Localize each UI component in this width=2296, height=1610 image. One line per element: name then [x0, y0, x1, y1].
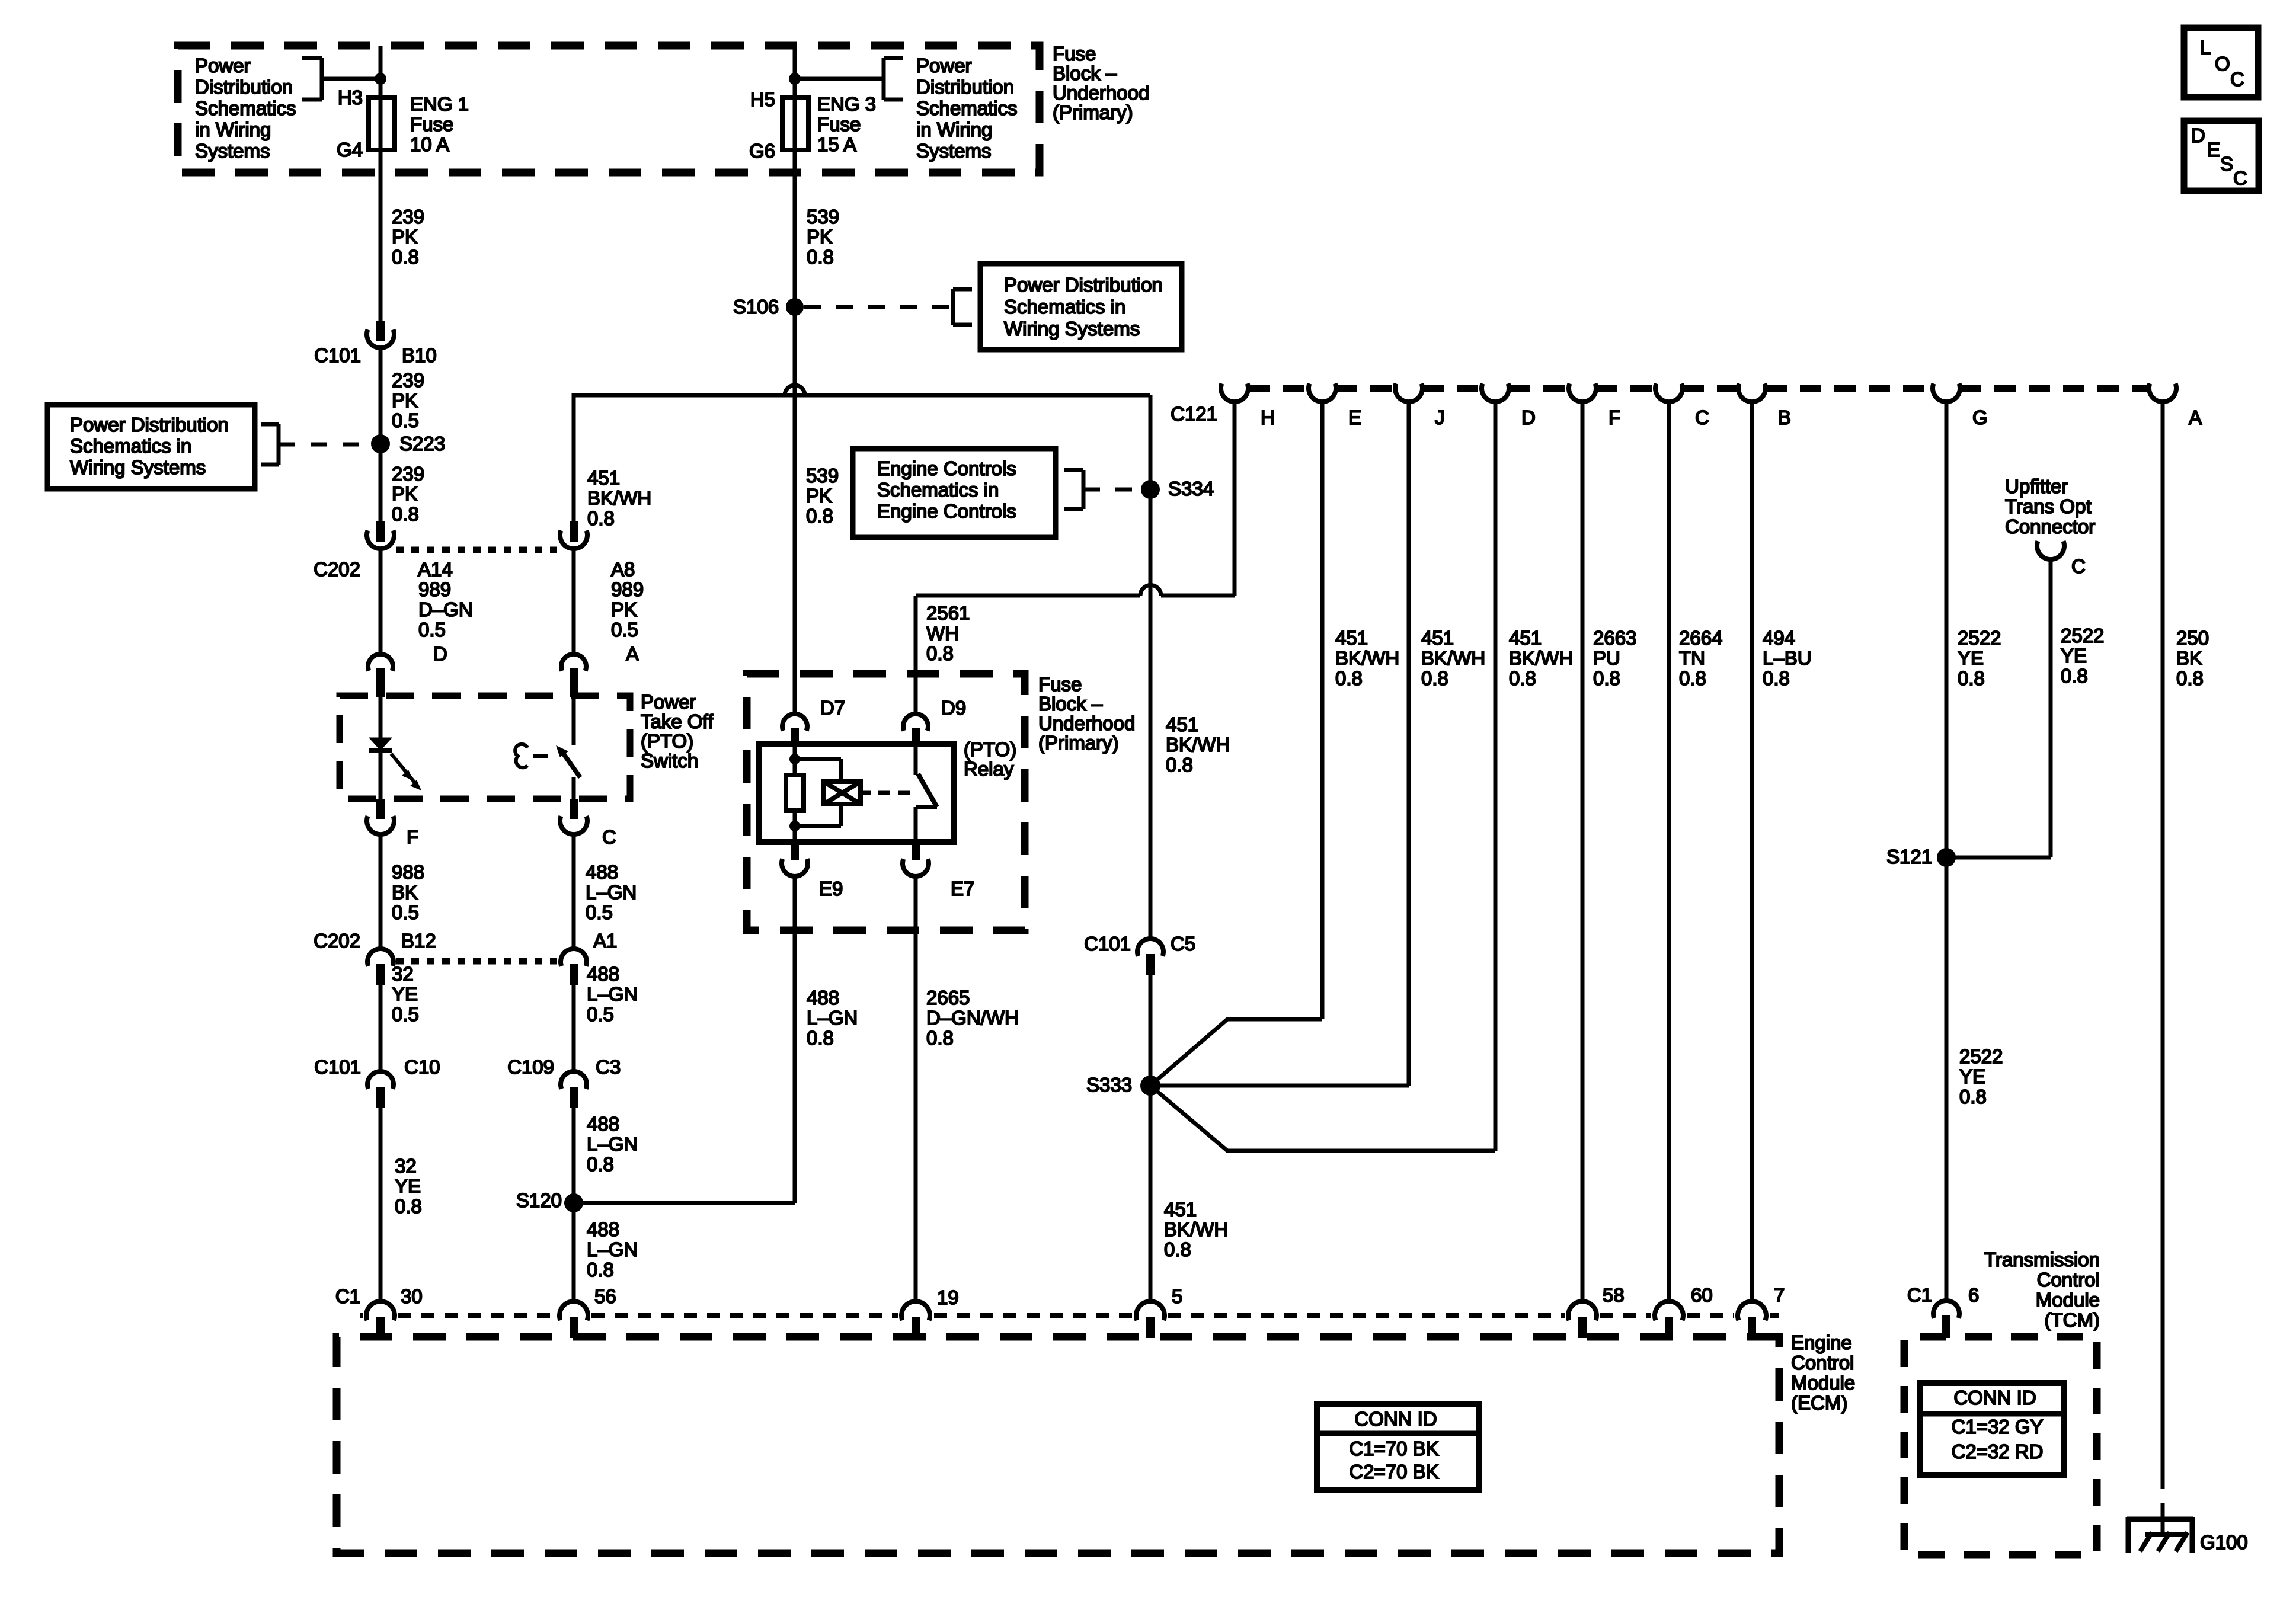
svg-text:488: 488 — [587, 1113, 619, 1135]
wire coil bottom — [793, 811, 797, 842]
svg-text:C: C — [1695, 406, 1709, 428]
wire 988 BK 0.5 — [379, 834, 383, 948]
connector C202 pin B12 — [367, 949, 394, 966]
svg-text:C: C — [2071, 555, 2086, 577]
svg-text:32: 32 — [395, 1155, 417, 1177]
svg-text:Module: Module — [2036, 1289, 2100, 1311]
wire 494 L-BU 0.8 C121 B to ECM 7 — [1750, 402, 1754, 1302]
svg-text:0.8: 0.8 — [926, 1027, 954, 1049]
wire 239 PK 0.8 below S223 — [379, 444, 383, 521]
svg-text:Fuse: Fuse — [410, 113, 453, 135]
wire 989 PK 0.5 — [572, 549, 576, 654]
svg-text:Transmission: Transmission — [1984, 1249, 2100, 1270]
svg-text:0.8: 0.8 — [587, 507, 615, 529]
svg-text:PK: PK — [807, 226, 833, 248]
svg-text:Upfitter: Upfitter — [2005, 475, 2068, 497]
svg-text:E9: E9 — [819, 878, 843, 900]
svg-text:988: 988 — [392, 861, 424, 883]
relay coil box symbol — [824, 782, 861, 804]
connector C121 pin C — [1655, 383, 1683, 402]
connector C121 pin J — [1395, 383, 1422, 402]
svg-text:D: D — [1521, 406, 1536, 428]
svg-text:0.8: 0.8 — [1166, 754, 1193, 776]
svg-text:Power: Power — [641, 691, 696, 713]
svg-text:Relay: Relay — [964, 758, 1014, 780]
svg-text:Underhood: Underhood — [1038, 712, 1135, 734]
svg-text:2522: 2522 — [1958, 627, 2001, 649]
connector C121 pin H — [1221, 383, 1248, 402]
svg-text:H3: H3 — [338, 87, 363, 108]
connector C121 pin B — [1738, 383, 1766, 402]
svg-text:A1: A1 — [593, 930, 617, 952]
svg-text:0.5: 0.5 — [611, 619, 638, 641]
connector ECM pin 58 — [1568, 1301, 1597, 1320]
svg-text:15 A: 15 A — [817, 133, 856, 155]
connector PTO switch pin A — [561, 654, 586, 671]
svg-text:0.8: 0.8 — [392, 246, 419, 268]
LOC hotlink box — [2184, 28, 2258, 97]
relay coil actuator stub — [861, 791, 871, 795]
ref box Power Distribution Schematics in Wiring Systems (S106) — [980, 264, 1182, 350]
connector TCM pin 6 (C1) — [1933, 1301, 1959, 1318]
svg-text:488: 488 — [587, 963, 619, 985]
junction dot coil top — [789, 754, 800, 764]
svg-text:BK: BK — [2176, 647, 2202, 669]
DESC hotlink box — [2184, 121, 2259, 191]
LED arrows — [391, 754, 410, 776]
wire 2665 D-GN/WH 0.8 from E7 to ECM 19 — [914, 876, 918, 1302]
splice S334 — [1141, 480, 1160, 499]
wire 451 BK/WH riser — [1149, 395, 1153, 585]
svg-text:Power: Power — [195, 55, 251, 76]
svg-text:0.8: 0.8 — [1335, 667, 1363, 689]
svg-text:Wiring Systems: Wiring Systems — [70, 456, 206, 478]
PTO switch actuator curl — [515, 744, 527, 767]
svg-text:S333: S333 — [1086, 1074, 1132, 1096]
svg-text:BK/WH: BK/WH — [1509, 647, 1573, 669]
svg-text:Systems: Systems — [195, 140, 270, 162]
svg-text:Schematics in: Schematics in — [1004, 296, 1125, 318]
table TCM CONN ID — [1920, 1383, 2064, 1475]
svg-text:BK/WH: BK/WH — [1164, 1218, 1228, 1240]
svg-text:B12: B12 — [401, 930, 436, 952]
svg-text:989: 989 — [611, 578, 644, 600]
wire relay switch lower contact — [914, 807, 918, 842]
svg-text:C3: C3 — [596, 1056, 621, 1078]
svg-text:Fuse: Fuse — [1038, 673, 1082, 695]
svg-text:CONN ID: CONN ID — [1953, 1387, 2036, 1409]
svg-text:in Wiring: in Wiring — [916, 119, 992, 140]
junction dot coil bottom — [789, 821, 800, 831]
connector ECM pin 7 — [1738, 1301, 1766, 1320]
svg-text:S106: S106 — [733, 296, 779, 318]
wire 250 BK 0.8 C121 A to G100 — [2161, 402, 2165, 1489]
wire ENG1 fuse top feed — [379, 46, 383, 100]
svg-text:F: F — [1609, 406, 1620, 428]
wire S120 branch to relay E9 wire — [574, 1201, 795, 1205]
wire PTO switch lower contact — [572, 777, 576, 799]
svg-text:C10: C10 — [404, 1056, 440, 1078]
svg-text:YE: YE — [392, 983, 418, 1005]
TCM dashed box — [1904, 1337, 2097, 1555]
svg-text:C1: C1 — [335, 1285, 360, 1307]
connector C109 pin C3 — [561, 1071, 587, 1089]
svg-text:C: C — [2230, 68, 2244, 90]
svg-text:0.8: 0.8 — [587, 1153, 614, 1175]
svg-text:0.8: 0.8 — [806, 505, 833, 527]
connector ECM pin 19 — [901, 1301, 930, 1320]
svg-text:WH: WH — [926, 622, 959, 644]
svg-text:C121: C121 — [1171, 403, 1217, 425]
svg-text:G: G — [1972, 406, 1988, 428]
svg-text:BK: BK — [392, 881, 418, 903]
svg-text:0.8: 0.8 — [1593, 667, 1620, 689]
svg-text:30: 30 — [401, 1285, 423, 1307]
svg-text:451: 451 — [1166, 713, 1198, 735]
svg-text:58: 58 — [1603, 1284, 1625, 1306]
wire relay switch upper contact — [914, 744, 918, 775]
connector C202 pin A14 — [376, 521, 385, 542]
fuse block dashed box (PTO relay) — [747, 674, 1025, 930]
connector relay pin D9 — [903, 714, 928, 731]
svg-text:C101: C101 — [1084, 933, 1131, 955]
svg-text:C5: C5 — [1171, 933, 1195, 955]
svg-text:Switch: Switch — [641, 750, 698, 772]
table ECM CONN ID — [1317, 1404, 1479, 1490]
svg-text:2522: 2522 — [1959, 1045, 2003, 1067]
wire S333 branch to C121 D — [1150, 1086, 1495, 1151]
svg-text:YE: YE — [1958, 647, 1984, 669]
svg-text:Schematics: Schematics — [916, 97, 1018, 119]
svg-text:C2=32 RD: C2=32 RD — [1952, 1441, 2044, 1462]
fuse ENG 1 (10 A) — [369, 97, 395, 150]
svg-text:A8: A8 — [611, 558, 635, 580]
svg-text:D9: D9 — [941, 697, 966, 719]
svg-text:Engine: Engine — [1791, 1331, 1852, 1353]
svg-text:L–GN: L–GN — [587, 983, 638, 1005]
svg-text:L–BU: L–BU — [1763, 647, 1812, 669]
svg-text:0.5: 0.5 — [418, 619, 446, 641]
connector PTO switch pin C — [570, 799, 578, 819]
node junction dot ENG 1 feed — [375, 73, 386, 85]
svg-text:L–GN: L–GN — [807, 1007, 858, 1029]
svg-text:D–GN: D–GN — [418, 598, 473, 620]
svg-text:ENG 1: ENG 1 — [410, 93, 469, 115]
svg-text:YE: YE — [395, 1175, 421, 1197]
svg-text:BK/WH: BK/WH — [1166, 734, 1230, 756]
svg-text:ENG 3: ENG 3 — [817, 93, 876, 115]
svg-text:E: E — [2207, 139, 2220, 161]
svg-text:0.8: 0.8 — [2061, 665, 2088, 687]
splice S120 — [564, 1193, 583, 1212]
svg-text:239: 239 — [392, 369, 424, 391]
svg-text:(PTO): (PTO) — [641, 730, 693, 752]
svg-text:S334: S334 — [1168, 478, 1214, 500]
node junction dot ENG 3 feed — [789, 73, 801, 85]
svg-text:PK: PK — [392, 226, 418, 248]
svg-text:E: E — [1348, 406, 1361, 428]
svg-text:D: D — [2191, 124, 2205, 146]
dashed leader to S223 — [279, 443, 372, 447]
svg-text:C109: C109 — [507, 1056, 554, 1078]
svg-text:2663: 2663 — [1593, 627, 1636, 649]
connector C121 pin A — [2149, 383, 2176, 402]
wire 451 BK/WH 0.8 corner from A8 to S334 riser — [572, 393, 576, 521]
svg-text:BK/WH: BK/WH — [1335, 647, 1399, 669]
top fuse block dashed box (Fuse Block - Underhood) — [178, 46, 1040, 172]
svg-text:0.8: 0.8 — [392, 503, 419, 525]
svg-text:Connector: Connector — [2005, 516, 2095, 537]
svg-text:Distribution: Distribution — [195, 76, 293, 98]
wire 2664 TN 0.8 C121 C to ECM 60 — [1667, 402, 1671, 1302]
svg-text:0.5: 0.5 — [587, 1003, 614, 1025]
connector relay pin D7 — [782, 714, 807, 731]
svg-text:0.8: 0.8 — [1509, 667, 1536, 689]
svg-text:C1=70 BK: C1=70 BK — [1349, 1438, 1438, 1459]
connector relay pin E9 — [791, 842, 799, 860]
svg-text:488: 488 — [807, 987, 839, 1009]
connector ECM pin 30 — [366, 1301, 395, 1320]
wire ENG3 fuse top feed — [793, 46, 797, 100]
svg-text:0.8: 0.8 — [587, 1259, 614, 1281]
svg-text:Power: Power — [916, 55, 972, 76]
svg-text:0.8: 0.8 — [1958, 667, 1985, 689]
svg-text:O: O — [2215, 53, 2230, 75]
wire 239 PK 0.5 — [379, 348, 383, 449]
relay switch blade — [918, 774, 937, 807]
reference bracket to ENG 3 feed — [884, 56, 903, 60]
connector ECM pin 56 — [559, 1301, 588, 1320]
wire 488 L-GN 0.5 lower — [572, 985, 576, 1071]
svg-text:E7: E7 — [951, 878, 974, 900]
svg-text:F: F — [407, 826, 418, 848]
svg-text:Power Distribution: Power Distribution — [1004, 274, 1163, 296]
crossover hop over 451 riser — [1140, 585, 1161, 596]
svg-text:Schematics in: Schematics in — [877, 479, 999, 501]
svg-text:451: 451 — [1509, 627, 1542, 649]
reference bracket S334 — [1064, 468, 1083, 472]
svg-text:YE: YE — [2061, 645, 2087, 667]
svg-text:0.5: 0.5 — [392, 1003, 419, 1025]
svg-text:451: 451 — [1421, 627, 1454, 649]
svg-text:TN: TN — [1679, 647, 1705, 669]
connector C121 pin E — [1309, 383, 1336, 402]
svg-text:Wiring Systems: Wiring Systems — [1004, 318, 1140, 340]
svg-text:Block –: Block – — [1053, 62, 1117, 84]
wire upfitter C to S121 — [2049, 559, 2053, 857]
svg-text:Fuse: Fuse — [1053, 43, 1096, 65]
svg-text:0.8: 0.8 — [926, 642, 954, 664]
svg-text:0.8: 0.8 — [1421, 667, 1448, 689]
svg-text:(Primary): (Primary) — [1053, 101, 1133, 123]
svg-text:2522: 2522 — [2061, 625, 2104, 646]
svg-text:S: S — [2220, 153, 2233, 175]
svg-text:G4: G4 — [337, 139, 363, 161]
svg-text:H5: H5 — [750, 88, 775, 110]
wire relay coil feed — [793, 744, 797, 776]
LED indicator diode — [369, 738, 392, 750]
svg-text:(PTO): (PTO) — [964, 738, 1016, 760]
svg-text:2561: 2561 — [926, 602, 970, 624]
svg-text:(TCM): (TCM) — [2045, 1309, 2100, 1331]
svg-text:Block –: Block – — [1038, 693, 1103, 715]
svg-text:PK: PK — [392, 389, 418, 411]
wire PTO switch upper contact — [572, 696, 576, 745]
svg-text:A: A — [2189, 406, 2202, 428]
svg-text:0.8: 0.8 — [395, 1195, 422, 1217]
svg-text:539: 539 — [806, 465, 839, 486]
svg-text:2665: 2665 — [926, 987, 970, 1009]
wire LED cathode — [379, 751, 383, 799]
relay linkage dashes — [878, 791, 913, 795]
connector ECM pin 5 — [1136, 1301, 1165, 1320]
svg-text:0.8: 0.8 — [1763, 667, 1790, 689]
wire coil loop — [795, 757, 841, 761]
svg-text:S223: S223 — [399, 433, 445, 454]
dotted connector line C202 row A — [396, 547, 557, 553]
connector C121 pin G — [1933, 383, 1960, 402]
svg-text:S121: S121 — [1886, 846, 1932, 868]
svg-text:Engine Controls: Engine Controls — [877, 457, 1016, 479]
svg-text:C202: C202 — [314, 558, 360, 580]
svg-text:in Wiring: in Wiring — [195, 119, 271, 140]
wire riser to S333 — [1149, 975, 1153, 1302]
connector C101 pin C10 — [367, 1071, 394, 1089]
wire 488 L-GN 0.5 — [572, 834, 576, 948]
svg-text:488: 488 — [586, 861, 618, 883]
wire S333 branch to C121 J — [1150, 1084, 1409, 1088]
PTO relay solid box — [759, 744, 954, 842]
svg-text:539: 539 — [807, 206, 839, 228]
svg-text:Trans Opt: Trans Opt — [2005, 495, 2092, 517]
wire C121 E to S333 branch — [1320, 402, 1325, 1019]
svg-text:A: A — [626, 643, 639, 665]
wire S121 branch — [1946, 856, 2051, 860]
svg-text:C: C — [2233, 167, 2247, 189]
svg-text:Schematics: Schematics — [195, 97, 296, 119]
connector Upfitter Trans Opt pin C — [2037, 541, 2064, 559]
svg-text:PK: PK — [611, 598, 637, 620]
svg-text:PK: PK — [392, 483, 418, 505]
connector C101 pin B10 — [376, 321, 385, 341]
PTO switch dashed box — [340, 696, 630, 799]
ground G100 symbol — [2127, 1517, 2193, 1522]
connector C121 pin D — [1482, 383, 1509, 402]
svg-text:BK/WH: BK/WH — [1421, 647, 1485, 669]
svg-text:989: 989 — [418, 578, 451, 600]
svg-text:C2=70 BK: C2=70 BK — [1349, 1461, 1438, 1483]
resistor relay coil resistor — [786, 775, 804, 811]
connector PTO switch pin D — [368, 654, 393, 671]
svg-text:C1: C1 — [1907, 1284, 1932, 1306]
svg-text:Power Distribution: Power Distribution — [70, 414, 229, 436]
svg-text:0.8: 0.8 — [807, 1027, 834, 1049]
svg-text:L–GN: L–GN — [587, 1238, 638, 1260]
svg-text:56: 56 — [594, 1285, 616, 1307]
svg-text:Distribution: Distribution — [916, 76, 1014, 98]
svg-text:0.8: 0.8 — [2176, 667, 2204, 689]
svg-text:B: B — [1778, 406, 1791, 428]
connector C202 pin A1 — [561, 949, 587, 966]
splice S106 — [786, 298, 804, 316]
svg-text:D: D — [433, 643, 447, 665]
svg-text:0.5: 0.5 — [586, 901, 613, 923]
svg-text:G6: G6 — [749, 140, 775, 162]
svg-text:CONN ID: CONN ID — [1354, 1408, 1437, 1430]
svg-text:PK: PK — [806, 485, 832, 507]
splice S121 — [1937, 848, 1956, 867]
ECM dashed box — [337, 1337, 1779, 1553]
svg-text:0.8: 0.8 — [1959, 1086, 1987, 1108]
svg-text:D–GN/WH: D–GN/WH — [926, 1007, 1019, 1029]
splice S333 — [1140, 1076, 1160, 1096]
svg-text:0.8: 0.8 — [807, 246, 834, 268]
svg-text:60: 60 — [1691, 1284, 1713, 1306]
connector C121 pin F — [1569, 383, 1596, 402]
wire 2663 PU 0.8 C121 F to ECM 58 — [1581, 402, 1585, 1302]
wire S333 branch to C121 E — [1150, 1019, 1322, 1086]
connector C121 dashed line — [1249, 385, 1309, 392]
svg-text:Schematics in: Schematics in — [70, 435, 191, 457]
wire 32 YE 0.5 — [379, 985, 383, 1071]
connector C101 pin C5 — [1137, 939, 1163, 956]
svg-text:239: 239 — [392, 206, 424, 228]
svg-text:C202: C202 — [314, 930, 360, 952]
svg-text:488: 488 — [587, 1218, 619, 1240]
svg-text:L: L — [2200, 36, 2211, 58]
svg-text:A14: A14 — [418, 558, 453, 580]
svg-text:250: 250 — [2176, 627, 2209, 649]
connector relay pin E7 — [912, 842, 920, 860]
svg-text:C101: C101 — [314, 1056, 361, 1078]
svg-text:BK/WH: BK/WH — [587, 487, 651, 509]
svg-text:D7: D7 — [820, 697, 845, 719]
svg-text:C: C — [602, 826, 616, 848]
wire 539 PK 0.8 from ENG3 fuse — [793, 150, 797, 713]
svg-text:19: 19 — [937, 1286, 959, 1308]
svg-text:0.8: 0.8 — [1164, 1238, 1191, 1260]
svg-text:6: 6 — [1968, 1284, 1979, 1306]
svg-text:2664: 2664 — [1679, 627, 1722, 649]
connector C202 pin A8 — [570, 521, 578, 542]
wire C121 J to S333 branch — [1407, 402, 1411, 1086]
dashed leader S106 — [804, 305, 953, 309]
svg-text:Take Off: Take Off — [641, 710, 714, 732]
svg-text:494: 494 — [1763, 627, 1795, 649]
svg-text:(ECM): (ECM) — [1791, 1392, 1847, 1414]
svg-text:Fuse: Fuse — [817, 113, 861, 135]
wire LED anode inside PTO switch — [379, 696, 383, 739]
wire C121 D to S333 branch — [1494, 402, 1498, 1151]
svg-text:7: 7 — [1774, 1284, 1785, 1306]
ref box Power Distribution Schematics in Wiring Systems (S223) — [47, 405, 255, 489]
svg-text:239: 239 — [392, 463, 424, 485]
svg-text:G100: G100 — [2200, 1531, 2248, 1553]
reference bracket S106 — [953, 287, 972, 292]
wire 32 YE 0.8 — [379, 1108, 383, 1302]
reference bracket to ENG 1 feed — [302, 56, 322, 60]
svg-text:0.5: 0.5 — [392, 409, 419, 431]
ref box Engine Controls Schematics in Engine Controls — [853, 449, 1056, 537]
svg-text:YE: YE — [1959, 1065, 1985, 1087]
svg-text:C101: C101 — [314, 344, 361, 366]
svg-text:451: 451 — [1164, 1198, 1197, 1220]
PTO switch blade — [557, 746, 568, 757]
svg-text:0.8: 0.8 — [1679, 667, 1706, 689]
dashed leader S334 — [1083, 488, 1141, 492]
svg-text:B10: B10 — [402, 344, 437, 366]
svg-text:0.5: 0.5 — [392, 901, 419, 923]
